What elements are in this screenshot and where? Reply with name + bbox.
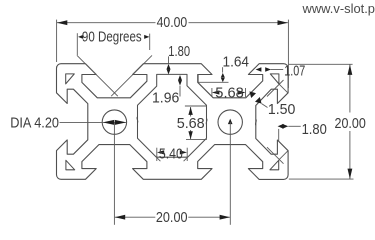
central octagon cavity: [138, 74, 207, 157]
extension line from left bore: [113, 122, 115, 225]
dimension 5.40: [156, 148, 158, 161]
svg-text:5.68: 5.68: [215, 85, 244, 101]
svg-text:1.07: 1.07: [284, 63, 305, 79]
oblique annotation lines top-right: [279, 84, 288, 93]
svg-text:1.50: 1.50: [268, 102, 296, 118]
oblique annotation lines bottom-right: [279, 151, 288, 160]
dimension 20.00 bottom: [115, 216, 156, 218]
dimension 20.00 right: [289, 63, 353, 65]
svg-text:40.00: 40.00: [157, 15, 188, 31]
dimension 40.00 top: [56, 20, 58, 62]
svg-text:20.00: 20.00: [156, 210, 188, 226]
dimension 1.96: [178, 75, 182, 80]
svg-text:1.64: 1.64: [223, 55, 250, 71]
svg-text:DIA 4.20: DIA 4.20: [10, 115, 59, 131]
svg-text:5.40: 5.40: [159, 146, 183, 162]
corner cavity top-right: [270, 74, 279, 84]
left bore hole: [102, 110, 126, 134]
extension line from right bore: [229, 122, 231, 225]
dimension 5.68 vertical: [185, 105, 207, 107]
profile outline: [57, 64, 289, 180]
dimension 1.80 right: [278, 124, 284, 129]
hole centre mark right: [228, 119, 233, 125]
corner cavity bottom-left: [66, 160, 75, 170]
dimension 1.07: [256, 67, 262, 71]
svg-text:20.00: 20.00: [335, 116, 366, 132]
dimension 1.50 oblique: [249, 91, 256, 98]
svg-text:1.80: 1.80: [168, 44, 190, 60]
svg-text:90 Degrees: 90 Degrees: [82, 29, 142, 45]
svg-text:www.v-slot.p: www.v-slot.p: [302, 1, 375, 16]
dimension 5.68 horizontal: [211, 88, 213, 97]
right bore hole: [218, 110, 242, 134]
line break squiggle on octagon left flat: [136, 117, 139, 123]
svg-text:1.80: 1.80: [302, 122, 327, 138]
svg-text:5.68: 5.68: [177, 116, 205, 132]
line break squiggle on octagon right flat: [205, 119, 208, 125]
svg-text:1.96: 1.96: [152, 91, 179, 107]
corner cavity bottom-right: [270, 160, 279, 170]
corner cavity top-left: [66, 74, 75, 84]
line break squiggle on right face slot flat: [254, 119, 257, 125]
dimension 90 Degrees: [76, 33, 78, 55]
V-wall extension lines: [77, 55, 118, 96]
